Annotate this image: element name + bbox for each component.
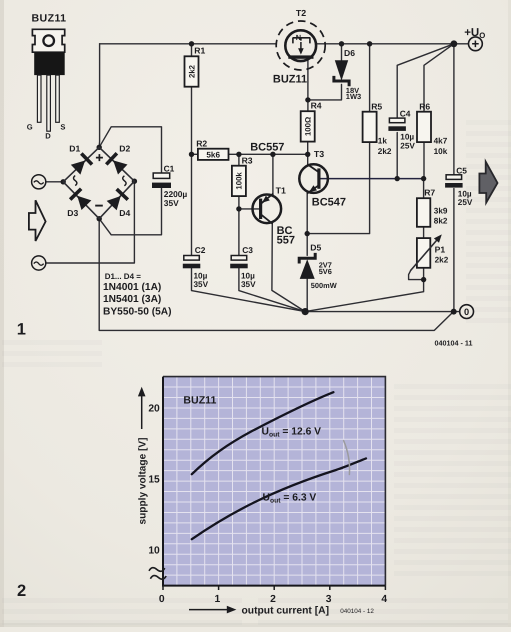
svg-text:10: 10 bbox=[148, 545, 160, 556]
BUZ11 TO-220 package tab bbox=[32, 29, 64, 52]
wire R1 top bbox=[191, 44, 193, 57]
svg-text:T3: T3 bbox=[314, 149, 324, 159]
wire AC1 terminal to bridge left node bbox=[46, 181, 63, 183]
bridge + mark bbox=[96, 154, 103, 161]
x axis ticks bbox=[163, 586, 385, 590]
svg-text:D1: D1 bbox=[69, 144, 80, 154]
wire R7 to P1 bbox=[423, 227, 425, 238]
node R1/R2/C2 bbox=[189, 152, 194, 157]
svg-text:BC557: BC557 bbox=[250, 141, 284, 153]
svg-text:100Ω: 100Ω bbox=[304, 117, 313, 136]
svg-text:N: N bbox=[296, 33, 301, 42]
diode list note bbox=[103, 272, 172, 318]
wire C1 bottom to bridge - node bbox=[99, 188, 161, 235]
svg-text:35V: 35V bbox=[241, 280, 256, 289]
label +Uo bbox=[464, 27, 485, 40]
graph panel bbox=[163, 377, 385, 586]
wire R6 bottom to base node bbox=[423, 142, 425, 179]
label BC547 bbox=[312, 197, 346, 209]
wire T1 collector down to ground node bbox=[272, 223, 305, 311]
input arrow bbox=[29, 200, 46, 241]
MOSFET T2 BUZ11 bbox=[276, 8, 325, 70]
zener diode D5 bbox=[299, 242, 337, 289]
wire R3 top bbox=[238, 154, 240, 165]
svg-text:040104 - 11: 040104 - 11 bbox=[435, 338, 473, 347]
svg-text:BUZ11: BUZ11 bbox=[183, 394, 216, 406]
capacitor C5 bbox=[445, 166, 473, 208]
graph curve Uout 6.3V bbox=[192, 458, 366, 539]
svg-text:D3: D3 bbox=[67, 208, 78, 218]
diode D3 bbox=[67, 187, 92, 218]
svg-text:D6: D6 bbox=[344, 48, 355, 58]
svg-text:R1: R1 bbox=[194, 46, 205, 56]
wire P1 node to ground node bbox=[305, 280, 423, 312]
resistor R5 bbox=[363, 101, 383, 142]
wire bridge right node down to AC2 terminal bbox=[46, 181, 135, 263]
svg-text:BUZ11: BUZ11 bbox=[273, 74, 307, 86]
svg-text:BUZ11: BUZ11 bbox=[32, 12, 67, 24]
svg-text:1: 1 bbox=[17, 321, 26, 339]
wire T3 emitter down / D5 node bbox=[306, 192, 308, 255]
label BUZ11 under T2 bbox=[273, 74, 307, 86]
svg-text:0: 0 bbox=[464, 307, 469, 317]
diode D1 bbox=[69, 144, 93, 176]
svg-text:25V: 25V bbox=[458, 198, 473, 207]
y axis arrow and title bbox=[137, 387, 148, 525]
bridge - mark bbox=[95, 205, 103, 207]
wire +Uo down through C5 bbox=[453, 44, 455, 312]
svg-text:5k6: 5k6 bbox=[206, 151, 220, 160]
wire T1 emitter up bbox=[272, 154, 274, 195]
svg-text:BC547: BC547 bbox=[312, 197, 346, 209]
svg-text:R7: R7 bbox=[424, 188, 435, 198]
node T2 gate bbox=[305, 97, 310, 102]
capacitor C3 bbox=[230, 245, 256, 289]
transistor T3 BC547 bbox=[299, 149, 328, 194]
wire C2 column bbox=[191, 154, 193, 255]
svg-text:R2: R2 bbox=[196, 139, 207, 149]
resistor R7 bbox=[417, 188, 436, 227]
node 0 terminal bbox=[451, 309, 457, 315]
bridge rectifier frame bbox=[63, 147, 134, 218]
node P1 wiper bbox=[421, 277, 426, 282]
svg-text:10µ: 10µ bbox=[194, 271, 208, 280]
schematic number 040104-11 bbox=[435, 338, 473, 347]
svg-text:1k: 1k bbox=[378, 136, 388, 145]
node bridge right bbox=[132, 179, 137, 184]
+Uo terminal bbox=[469, 37, 483, 51]
svg-text:557: 557 bbox=[277, 235, 295, 247]
svg-text:10µ: 10µ bbox=[458, 189, 472, 198]
wire C3 bottom to ground node bbox=[239, 269, 305, 312]
wire bridge - node to bottom run to 0 bbox=[99, 219, 453, 331]
AC terminal 2 bbox=[32, 256, 46, 270]
svg-text:D: D bbox=[45, 132, 51, 141]
resistor R2 bbox=[196, 139, 228, 160]
label BC 557 bbox=[277, 225, 295, 247]
svg-text:8k2: 8k2 bbox=[434, 216, 448, 225]
wire R1 bottom to mid node bbox=[191, 87, 193, 155]
wire C4 bottom to base node bbox=[396, 133, 398, 179]
stray pen mark bbox=[344, 441, 350, 475]
node C4 base bbox=[395, 176, 400, 181]
0 terminal bbox=[460, 305, 474, 319]
node T1 base bbox=[236, 206, 241, 211]
svg-text:P1: P1 bbox=[435, 245, 446, 255]
wire ground run to 0 terminal bbox=[305, 311, 460, 313]
svg-text:C1: C1 bbox=[164, 164, 175, 174]
wire top rail left bbox=[100, 43, 277, 45]
graph number 040104-12 bbox=[340, 608, 374, 615]
wire C2 bottom to ground node bbox=[192, 269, 306, 312]
svg-text:1W3: 1W3 bbox=[346, 92, 361, 101]
svg-text:4: 4 bbox=[381, 594, 387, 605]
BUZ11 package label bbox=[32, 12, 67, 24]
x axis labels bbox=[159, 594, 387, 605]
y axis labels bbox=[148, 403, 160, 556]
bridge ~ mark left bbox=[74, 176, 77, 186]
svg-text:C2: C2 bbox=[195, 245, 206, 255]
diode D4 bbox=[106, 188, 130, 218]
svg-text:R3: R3 bbox=[242, 156, 253, 166]
BUZ11 package body bbox=[34, 52, 64, 75]
graph curve Uout 12.6V bbox=[192, 392, 334, 474]
svg-text:2: 2 bbox=[17, 582, 26, 600]
wire R7 top bbox=[423, 179, 425, 199]
package pin S bbox=[56, 75, 66, 132]
svg-text:T2: T2 bbox=[296, 8, 306, 18]
wire T3 collector up bbox=[307, 154, 309, 165]
wire C4 top diagonal to +Uo bbox=[397, 44, 454, 118]
wire T2 source down to R4 bbox=[307, 60, 309, 111]
wire D6 bottom to gate node bbox=[308, 84, 342, 100]
node ground junction bbox=[302, 308, 309, 315]
curve label Uout=6.3V bbox=[263, 493, 317, 505]
svg-text:2: 2 bbox=[270, 594, 276, 605]
wire top rail right bbox=[316, 43, 469, 45]
node T1 emitter bbox=[270, 152, 275, 157]
figure number 2 bbox=[17, 582, 26, 600]
resistor R1 bbox=[185, 46, 206, 87]
svg-text:supply voltage [V]: supply voltage [V] bbox=[137, 438, 148, 525]
node bridge left bbox=[61, 179, 66, 184]
resistor R4 bbox=[301, 101, 322, 142]
svg-text:1N4001 (1A): 1N4001 (1A) bbox=[103, 282, 161, 293]
svg-text:15: 15 bbox=[148, 474, 160, 485]
resistor R3 bbox=[232, 156, 253, 196]
svg-text:output current [A]: output current [A] bbox=[242, 606, 330, 617]
AC terminal 1 bbox=[32, 175, 46, 189]
svg-text:S: S bbox=[60, 123, 65, 132]
svg-text:20: 20 bbox=[148, 403, 160, 414]
svg-text:3k9: 3k9 bbox=[434, 207, 448, 216]
wire P1 bottom and wiper loop bbox=[409, 268, 424, 280]
svg-text:5V6: 5V6 bbox=[319, 267, 332, 276]
curve label Uout=12.6V bbox=[262, 427, 322, 439]
svg-text:040104 - 12: 040104 - 12 bbox=[340, 608, 374, 615]
capacitor C2 bbox=[183, 245, 209, 289]
svg-text:1N5401 (3A): 1N5401 (3A) bbox=[103, 294, 161, 305]
node +Uo bbox=[451, 40, 458, 47]
node bridge bottom bbox=[97, 216, 102, 221]
wire bridge + node to C1 bbox=[99, 127, 161, 173]
svg-text:100k: 100k bbox=[235, 172, 244, 190]
svg-text:0: 0 bbox=[159, 594, 165, 605]
svg-text:C4: C4 bbox=[400, 108, 411, 118]
node R5 top bbox=[367, 41, 372, 46]
wire R6 top diagonal to +Uo bbox=[424, 44, 454, 112]
svg-text:500mW: 500mW bbox=[311, 281, 337, 290]
diode D2 bbox=[105, 144, 131, 175]
wire R3 bottom / T1 base node / C3 top bbox=[239, 196, 259, 255]
svg-text:2k2: 2k2 bbox=[187, 64, 196, 78]
resistor R6 bbox=[417, 101, 431, 142]
wire mid horizontal R2 to T3 collector bbox=[192, 153, 308, 155]
capacitor C1 bbox=[152, 164, 187, 208]
svg-text:C3: C3 bbox=[242, 245, 253, 255]
svg-text:25V: 25V bbox=[400, 142, 415, 151]
figure number 1 bbox=[17, 321, 26, 339]
svg-text:3: 3 bbox=[326, 594, 332, 605]
svg-text:10µ: 10µ bbox=[400, 133, 414, 142]
svg-text:R6: R6 bbox=[419, 101, 430, 111]
x axis arrow and title bbox=[189, 606, 329, 617]
wire R4 bottom bbox=[307, 142, 309, 155]
node T3 collector bbox=[305, 152, 310, 157]
label BC557 top bbox=[250, 141, 284, 153]
svg-text:2k2: 2k2 bbox=[378, 147, 392, 156]
node T3 emitter / R5 bbox=[305, 231, 310, 236]
node R6/R7 base bbox=[421, 176, 426, 181]
svg-text:10µ: 10µ bbox=[241, 271, 255, 280]
svg-text:35V: 35V bbox=[194, 280, 209, 289]
package pin D bbox=[45, 75, 51, 141]
wire T3 base to divider node bbox=[319, 178, 424, 180]
svg-text:D4: D4 bbox=[119, 208, 130, 218]
svg-text:D2: D2 bbox=[119, 144, 130, 154]
bridge ~ mark right bbox=[123, 176, 126, 186]
wire D5 anode to ground node bbox=[306, 279, 308, 312]
zener diode D6 bbox=[334, 48, 361, 101]
graph label BUZ11 bbox=[183, 394, 216, 406]
wire R5 top bbox=[369, 44, 371, 112]
node R3 top bbox=[236, 152, 241, 157]
node D6 top bbox=[339, 41, 344, 46]
axis break symbol bbox=[149, 566, 167, 582]
package pin G bbox=[27, 75, 41, 132]
capacitor C4 bbox=[388, 108, 415, 150]
svg-text:1: 1 bbox=[215, 594, 221, 605]
output arrow bbox=[479, 162, 497, 203]
svg-text:C5: C5 bbox=[456, 166, 467, 176]
svg-text:10k: 10k bbox=[434, 147, 448, 156]
svg-text:D5: D5 bbox=[310, 242, 321, 252]
svg-text:D1... D4 =: D1... D4 = bbox=[105, 272, 142, 281]
svg-text:35V: 35V bbox=[164, 198, 179, 208]
wire R5 bottom to T3 emitter bbox=[307, 142, 369, 234]
svg-text:T1: T1 bbox=[276, 185, 286, 195]
node R1 top bbox=[189, 41, 194, 46]
svg-text:BY550-50 (5A): BY550-50 (5A) bbox=[103, 307, 172, 318]
svg-text:4k7: 4k7 bbox=[434, 136, 448, 145]
svg-text:R4: R4 bbox=[311, 101, 322, 111]
wire D6 top bbox=[341, 44, 343, 60]
wire rail to bridge + node bbox=[98, 44, 100, 148]
svg-text:G: G bbox=[27, 123, 33, 132]
potentiometer P1 bbox=[411, 234, 449, 270]
transistor T1 BC557 bbox=[252, 185, 285, 223]
node bridge top bbox=[97, 145, 102, 150]
svg-text:R5: R5 bbox=[371, 101, 382, 111]
svg-text:2k2: 2k2 bbox=[435, 256, 449, 265]
